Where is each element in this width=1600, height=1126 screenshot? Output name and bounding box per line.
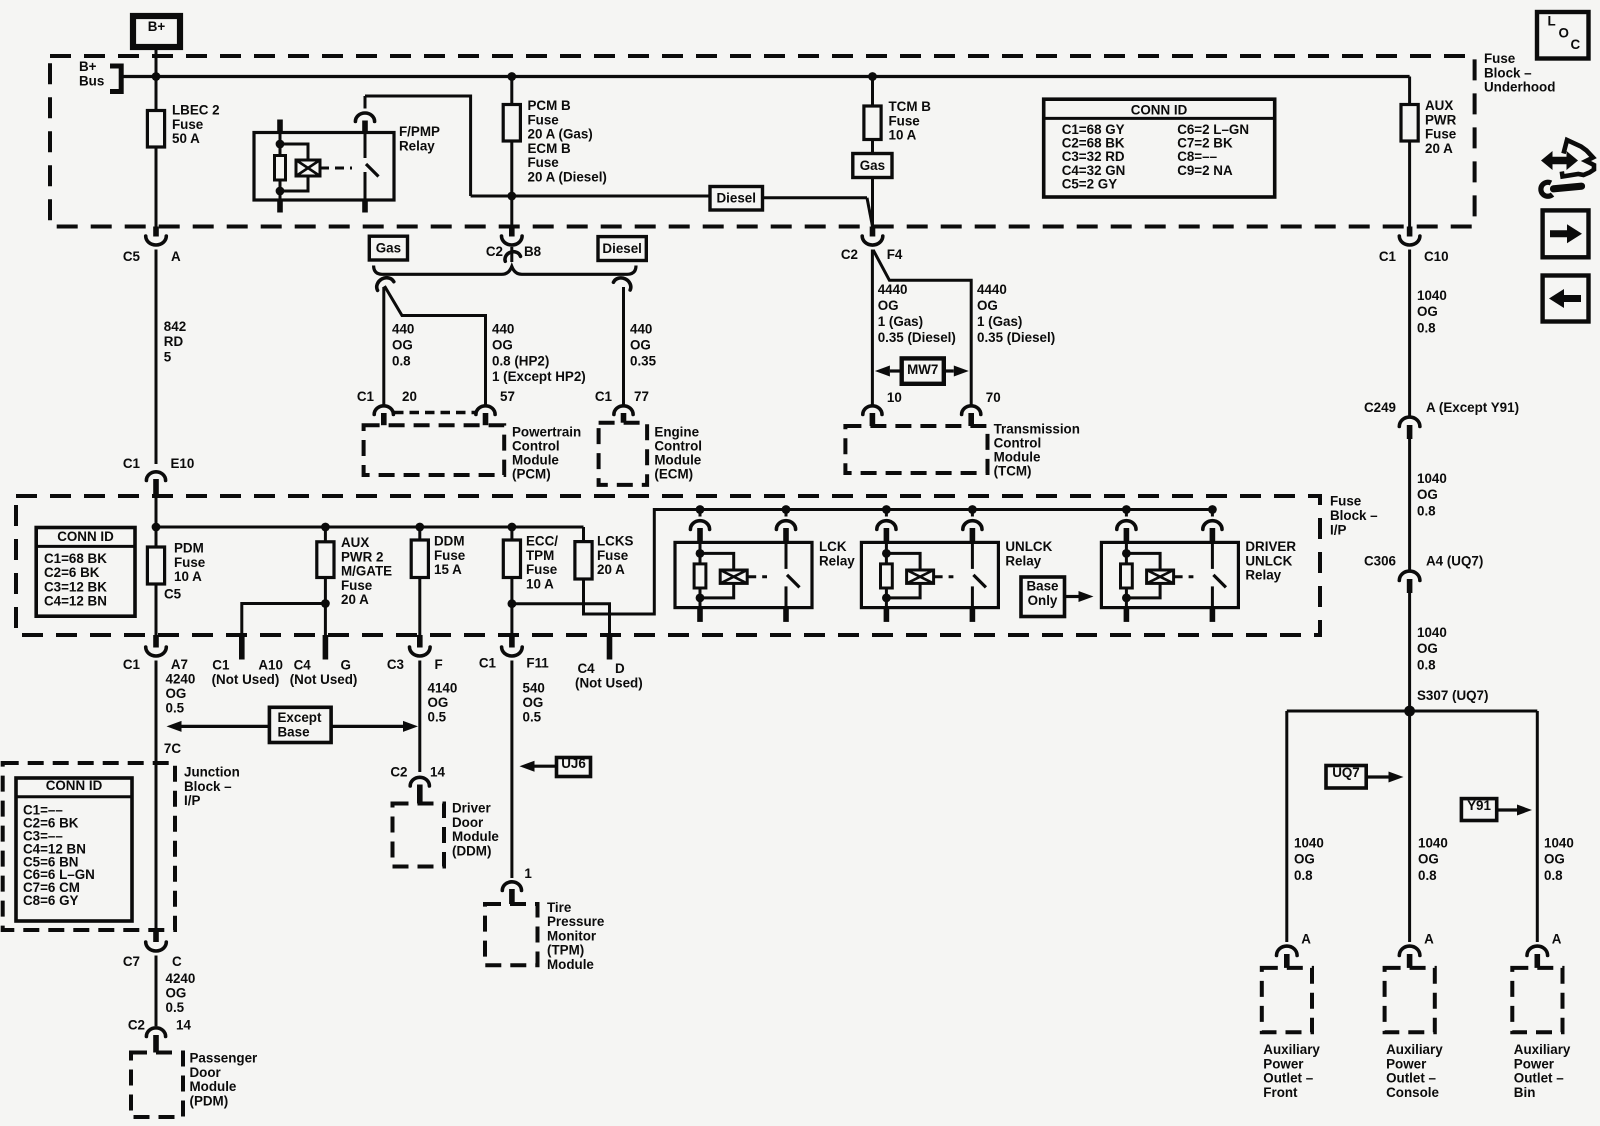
wire 4240 OG to junction block	[155, 661, 158, 764]
svg-text:77: 77	[634, 389, 649, 404]
connector C1 pin F11	[509, 635, 515, 648]
svg-text:OG: OG	[392, 337, 413, 352]
svg-text:Control: Control	[512, 439, 560, 454]
svg-text:C1: C1	[212, 658, 230, 673]
svg-text:1: 1	[524, 866, 532, 881]
junction on bus at TCM B fuse	[868, 72, 877, 81]
svg-text:10: 10	[887, 390, 902, 405]
svg-text:Module: Module	[512, 453, 559, 468]
svg-text:Junction: Junction	[184, 765, 240, 780]
svg-text:Engine: Engine	[654, 425, 699, 440]
svg-text:0.8: 0.8	[1417, 503, 1436, 518]
svg-text:Fuse: Fuse	[1425, 127, 1456, 142]
relay LCK switch pin	[785, 510, 788, 517]
svg-text:A10: A10	[258, 658, 283, 673]
svg-text:Gas: Gas	[860, 158, 885, 173]
relay UNLCK switch contact	[971, 542, 974, 569]
svg-text:DDM: DDM	[434, 534, 465, 549]
svg-text:Module: Module	[654, 453, 701, 468]
icon arrow next box	[1543, 210, 1589, 257]
CONN ID table - junction block	[16, 778, 132, 921]
svg-text:LBEC 2: LBEC 2	[172, 103, 220, 118]
relay LCK switch contact	[785, 542, 788, 569]
svg-text:(Not Used): (Not Used)	[212, 672, 280, 687]
svg-text:Auxiliary: Auxiliary	[1386, 1042, 1443, 1057]
wire to aux outlet bin	[1536, 711, 1539, 942]
relay LCK coil circuit	[699, 542, 702, 553]
junction below ECC/TPM fuse	[508, 599, 517, 608]
svg-text:C1: C1	[357, 389, 375, 404]
svg-text:A: A	[1424, 931, 1434, 946]
svg-text:OG: OG	[166, 686, 187, 701]
svg-text:O: O	[1559, 26, 1569, 41]
svg-text:57: 57	[500, 389, 515, 404]
svg-text:Module: Module	[994, 450, 1041, 465]
relay UNLCK coil circuit	[885, 542, 888, 553]
wire 440 OG 0.8 to PCM pin 20	[382, 287, 385, 405]
relay DRIVER coil circuit	[1125, 542, 1128, 553]
svg-text:C2: C2	[841, 247, 858, 262]
wire to not-used pin A10	[242, 604, 326, 636]
svg-text:C1=68 BK: C1=68 BK	[44, 551, 107, 566]
relay DRIVER switch pin	[1211, 510, 1214, 517]
relay DRIVER DRIVER UNLCK coil pin	[1125, 510, 1128, 517]
svg-text:I/P: I/P	[1330, 522, 1346, 537]
svg-text:Transmission: Transmission	[994, 422, 1080, 437]
svg-text:MW7: MW7	[907, 362, 938, 377]
svg-text:70: 70	[986, 390, 1001, 405]
svg-text:L: L	[1548, 14, 1556, 29]
svg-text:Block –: Block –	[184, 779, 232, 794]
svg-text:Bin: Bin	[1514, 1085, 1536, 1100]
svg-text:OG: OG	[428, 695, 449, 710]
svg-text:0.5: 0.5	[523, 710, 542, 725]
svg-text:C5=2 GY: C5=2 GY	[1062, 176, 1118, 191]
svg-text:20 A: 20 A	[597, 562, 625, 577]
wire to not-used pin D	[512, 604, 610, 635]
svg-text:0.8: 0.8	[1417, 657, 1436, 672]
svg-text:4240: 4240	[166, 971, 196, 986]
wire 540 OG to TPM	[510, 661, 513, 879]
wire B+ box to bus	[155, 47, 158, 77]
svg-text:C2: C2	[128, 1018, 145, 1033]
junction at AUX PWR 2 fuse	[321, 523, 330, 532]
svg-text:I/P: I/P	[184, 793, 200, 808]
svg-text:Diesel: Diesel	[602, 241, 641, 256]
svg-text:Fuse: Fuse	[172, 117, 203, 132]
wire diesel feed right segment to TCM drop	[763, 196, 868, 199]
fuse block - I/P dashed border	[16, 496, 1320, 635]
icon LOC box	[1537, 12, 1589, 59]
svg-text:C1: C1	[595, 389, 613, 404]
svg-text:Door: Door	[190, 1065, 222, 1080]
svg-text:Fuse: Fuse	[526, 562, 557, 577]
tag UQ7 with arrow	[1326, 766, 1366, 789]
svg-text:C2: C2	[390, 765, 407, 780]
tag Gas below TCM B fuse	[853, 154, 892, 178]
svg-text:Y91: Y91	[1467, 798, 1491, 813]
svg-text:M/GATE: M/GATE	[341, 564, 392, 579]
svg-text:14: 14	[430, 765, 445, 780]
wire B+ bus horizontal	[121, 75, 1409, 78]
CONN ID table - fuse block I/P	[36, 528, 135, 617]
svg-text:C: C	[1571, 37, 1581, 52]
svg-text:Gas: Gas	[376, 241, 401, 256]
junction on bus at LBEC2	[152, 72, 161, 81]
svg-text:A (Except Y91): A (Except Y91)	[1426, 400, 1519, 415]
relay DRIVER switch contact	[1211, 542, 1214, 569]
svg-text:ECC/: ECC/	[526, 534, 558, 549]
wire through junction block	[155, 763, 158, 930]
svg-text:Console: Console	[1386, 1085, 1439, 1100]
svg-text:Control: Control	[994, 436, 1042, 451]
module Auxiliary Power Outlet Front box	[1262, 968, 1312, 1032]
svg-text:440: 440	[492, 322, 514, 337]
svg-text:(PDM): (PDM)	[190, 1093, 229, 1108]
svg-text:F/PMP: F/PMP	[399, 124, 440, 139]
wire 1040 OG segment 1	[1408, 250, 1411, 418]
svg-text:Fuse: Fuse	[528, 155, 559, 170]
svg-text:Fuse: Fuse	[1330, 494, 1361, 509]
svg-text:OG: OG	[166, 986, 187, 1001]
svg-text:ECM B: ECM B	[528, 141, 571, 156]
svg-text:Fuse: Fuse	[597, 548, 628, 563]
svg-text:OG: OG	[977, 298, 998, 313]
svg-text:15 A: 15 A	[434, 562, 462, 577]
module ECM box	[599, 423, 648, 485]
svg-text:(TCM): (TCM)	[994, 464, 1032, 479]
module PDM box	[131, 1053, 183, 1118]
relay UNLCK switch pin	[971, 510, 974, 517]
svg-text:Relay: Relay	[1005, 553, 1041, 568]
wire 440 OG to PCM pin 57	[385, 286, 486, 405]
tag Diesel for ECM branch	[598, 237, 646, 261]
module PCM box	[364, 425, 505, 475]
module Auxiliary Power Outlet Console box	[1385, 968, 1435, 1032]
connector C1 pin C10	[1407, 227, 1413, 237]
wire 1040 OG segment 2	[1408, 439, 1411, 571]
relay UNLCK UNLCK coil pin	[885, 510, 888, 517]
svg-text:1040: 1040	[1418, 836, 1448, 851]
svg-text:440: 440	[392, 322, 414, 337]
brace split gas/diesel	[374, 266, 636, 275]
svg-text:Relay: Relay	[399, 138, 435, 153]
svg-text:Base: Base	[278, 724, 310, 739]
svg-text:Power: Power	[1386, 1056, 1427, 1071]
svg-text:Bus: Bus	[79, 73, 104, 88]
svg-text:842: 842	[164, 319, 186, 334]
connector C1 pin A7	[153, 635, 159, 648]
svg-text:0.8: 0.8	[1294, 868, 1313, 883]
svg-text:E10: E10	[171, 456, 195, 471]
relay DRIVER box	[1101, 542, 1238, 607]
svg-text:Only: Only	[1028, 593, 1058, 608]
svg-text:Diesel: Diesel	[717, 191, 756, 206]
wire 1040 OG segment 3	[1408, 593, 1411, 711]
svg-text:4140: 4140	[428, 681, 458, 696]
fuse LBEC 2 50 A	[155, 77, 158, 111]
svg-text:C7: C7	[123, 954, 140, 969]
module Auxiliary Power Outlet Bin box	[1512, 968, 1562, 1032]
svg-text:C10: C10	[1424, 249, 1449, 264]
svg-text:Front: Front	[1263, 1085, 1298, 1100]
svg-text:(TPM): (TPM)	[547, 943, 584, 958]
svg-text:LCKS: LCKS	[597, 534, 634, 549]
connector C2 pin F4	[870, 227, 876, 237]
svg-text:C: C	[172, 954, 182, 969]
icon vehicle service	[1541, 140, 1594, 196]
wire TCM drop below Gas tag	[871, 178, 874, 227]
svg-text:0.8: 0.8	[1544, 868, 1563, 883]
svg-text:B8: B8	[524, 244, 542, 259]
svg-text:C306: C306	[1364, 554, 1396, 569]
svg-text:A: A	[1301, 931, 1311, 946]
svg-text:Fuse: Fuse	[528, 112, 559, 127]
wire F/PMP relay switch to diesel feed	[365, 96, 471, 196]
svg-text:UQ7: UQ7	[1332, 765, 1360, 780]
svg-text:Fuse: Fuse	[341, 578, 372, 593]
connector C3 pin F	[417, 635, 423, 648]
icon arrow back box	[1543, 276, 1589, 322]
svg-text:Base: Base	[1026, 579, 1058, 594]
relay LCK LCK coil pin	[699, 510, 702, 517]
wire I/P feed vertical	[155, 496, 158, 547]
junction below AUX PWR 2 fuse	[321, 599, 330, 608]
svg-text:TPM: TPM	[526, 548, 554, 563]
svg-text:20 A (Gas): 20 A (Gas)	[528, 127, 593, 142]
svg-text:C2: C2	[486, 244, 503, 259]
svg-text:OG: OG	[523, 695, 544, 710]
tag Y91 with arrow	[1461, 799, 1496, 821]
fuse PCM B / ECM B 20 A	[510, 77, 513, 105]
relay UNLCK lower stubs	[884, 608, 890, 622]
svg-text:Block –: Block –	[1484, 65, 1532, 80]
connector C7 pin C	[153, 930, 159, 942]
svg-text:1 (Gas): 1 (Gas)	[878, 314, 923, 329]
svg-text:Driver: Driver	[452, 801, 491, 816]
svg-text:0.8: 0.8	[392, 353, 411, 368]
svg-text:D: D	[615, 661, 625, 676]
svg-text:0.8: 0.8	[1418, 868, 1437, 883]
svg-text:AUX: AUX	[1425, 98, 1453, 113]
svg-text:AUX: AUX	[341, 535, 369, 550]
svg-text:10 A: 10 A	[526, 576, 554, 591]
svg-text:C1: C1	[123, 657, 141, 672]
svg-text:1040: 1040	[1294, 836, 1324, 851]
svg-text:Fuse: Fuse	[1484, 51, 1515, 66]
svg-text:0.35 (Diesel): 0.35 (Diesel)	[977, 330, 1055, 345]
fuse AUX PWR 2 M/GATE 20 A	[324, 527, 327, 542]
svg-text:20: 20	[402, 389, 417, 404]
svg-text:G: G	[341, 658, 351, 673]
wire 4440 OG to TCM pin 10	[871, 250, 874, 406]
relay LCK actuator dashed link	[747, 575, 767, 578]
junction at ECC/TPM fuse	[508, 523, 517, 532]
svg-text:Module: Module	[452, 829, 499, 844]
junction at DDM fuse	[415, 523, 424, 532]
svg-text:Power: Power	[1514, 1056, 1555, 1071]
svg-text:OG: OG	[1417, 304, 1438, 319]
svg-text:5: 5	[164, 349, 172, 364]
svg-text:(DDM): (DDM)	[452, 843, 491, 858]
svg-text:0.5: 0.5	[166, 1000, 185, 1015]
svg-text:Tire: Tire	[547, 900, 571, 915]
svg-text:4440: 4440	[878, 282, 908, 297]
svg-text:C4: C4	[294, 658, 312, 673]
svg-text:20 A: 20 A	[341, 592, 369, 607]
svg-text:C4=12 BN: C4=12 BN	[44, 594, 107, 609]
svg-text:Pressure: Pressure	[547, 914, 604, 929]
svg-text:F: F	[435, 657, 443, 672]
tag MW7 with arrows	[890, 369, 902, 372]
svg-text:F11: F11	[526, 656, 549, 671]
svg-text:0.35 (Diesel): 0.35 (Diesel)	[878, 330, 956, 345]
svg-text:Underhood: Underhood	[1484, 80, 1555, 95]
svg-text:C2=6 BK: C2=6 BK	[44, 565, 100, 580]
svg-text:(ECM): (ECM)	[654, 467, 693, 482]
svg-text:Door: Door	[452, 815, 484, 830]
svg-text:Auxiliary: Auxiliary	[1514, 1042, 1571, 1057]
svg-text:A7: A7	[171, 657, 188, 672]
tag Except Base with arrows	[182, 725, 270, 728]
svg-text:1 (Except HP2): 1 (Except HP2)	[492, 369, 586, 384]
fuse LCKS 20 A	[582, 527, 585, 542]
svg-text:4240: 4240	[166, 672, 196, 687]
svg-text:1 (Gas): 1 (Gas)	[977, 314, 1022, 329]
svg-text:(Not Used): (Not Used)	[575, 675, 643, 690]
wire splice S307 horizontal	[1287, 710, 1538, 713]
svg-text:(Not Used): (Not Used)	[290, 672, 358, 687]
wire 440 OG 0.35 to ECM pin 77	[622, 287, 625, 405]
svg-text:OG: OG	[492, 337, 513, 352]
svg-text:50 A: 50 A	[172, 131, 200, 146]
wire LCKS fuse to relay bus	[584, 510, 1212, 615]
relay UNLCK actuator dashed link	[934, 575, 954, 578]
svg-text:0.8 (HP2): 0.8 (HP2)	[492, 353, 549, 368]
fuse PDM 10 A	[147, 547, 164, 584]
svg-text:OG: OG	[878, 298, 899, 313]
svg-text:C249: C249	[1364, 400, 1396, 415]
svg-text:A: A	[171, 249, 181, 264]
svg-text:Passenger: Passenger	[190, 1051, 259, 1066]
svg-text:F4: F4	[887, 247, 903, 262]
svg-text:1040: 1040	[1417, 625, 1447, 640]
junction block - I/P dashed border	[3, 763, 175, 930]
wire 4440 OG to TCM pin 70	[873, 250, 971, 405]
fuse block - underhood dashed border	[50, 56, 1475, 227]
svg-text:0.5: 0.5	[428, 710, 447, 725]
svg-text:Module: Module	[190, 1079, 237, 1094]
fuse TCM B 10 A	[871, 77, 874, 107]
svg-text:UNLCK: UNLCK	[1005, 539, 1052, 554]
svg-text:C4: C4	[578, 661, 596, 676]
svg-text:Auxiliary: Auxiliary	[1263, 1042, 1320, 1057]
fuse DDM 15 A	[418, 527, 421, 540]
svg-text:PCM B: PCM B	[528, 98, 571, 113]
svg-text:C5: C5	[123, 249, 141, 264]
wire to aux outlet console	[1408, 711, 1411, 942]
svg-text:DRIVER: DRIVER	[1245, 539, 1296, 554]
relay UNLCK box	[861, 542, 998, 607]
svg-text:540: 540	[523, 681, 545, 696]
svg-text:B+: B+	[148, 19, 166, 34]
wire to aux outlet front	[1285, 711, 1288, 942]
svg-text:C3: C3	[387, 657, 404, 672]
svg-text:14: 14	[176, 1018, 191, 1033]
relay LCK lower stubs	[697, 608, 703, 622]
svg-text:Except: Except	[278, 710, 322, 725]
svg-text:Fuse: Fuse	[434, 548, 465, 563]
svg-text:Outlet –: Outlet –	[1263, 1071, 1313, 1086]
wire diesel feed left segment	[471, 195, 710, 198]
svg-text:Relay: Relay	[1245, 568, 1281, 583]
dashed link between PCM pins	[394, 411, 476, 414]
svg-text:Outlet –: Outlet –	[1514, 1071, 1564, 1086]
svg-text:A4 (UQ7): A4 (UQ7)	[1426, 554, 1483, 569]
svg-text:PDM: PDM	[174, 541, 204, 556]
svg-text:Fuse: Fuse	[174, 555, 205, 570]
svg-text:OG: OG	[1294, 852, 1315, 867]
module DDM box	[393, 804, 445, 867]
junction diesel feed at PCM fuse wire	[507, 192, 516, 201]
svg-text:RD: RD	[164, 334, 184, 349]
svg-text:B+: B+	[79, 59, 97, 74]
svg-text:0.35: 0.35	[630, 353, 657, 368]
svg-text:CONN ID: CONN ID	[1131, 103, 1188, 118]
svg-text:C1: C1	[479, 656, 497, 671]
CONN ID table - underhood	[1044, 99, 1275, 197]
svg-text:1040: 1040	[1544, 836, 1574, 851]
svg-text:20 A (Diesel): 20 A (Diesel)	[528, 170, 607, 185]
svg-text:7C: 7C	[164, 741, 181, 756]
svg-text:OG: OG	[1544, 852, 1565, 867]
relay F/PMP	[254, 133, 394, 201]
tag Base Only with arrow	[1021, 577, 1065, 617]
svg-text:Relay: Relay	[819, 553, 855, 568]
stub not-used pin G	[323, 635, 329, 660]
svg-text:C1: C1	[123, 456, 141, 471]
svg-text:C5: C5	[164, 587, 182, 602]
junction on bus at PCM B fuse	[507, 72, 516, 81]
svg-text:Power: Power	[1263, 1056, 1304, 1071]
wire 4140 OG to DDM	[418, 661, 421, 773]
connector C5 pin A	[153, 227, 159, 237]
svg-text:OG: OG	[1418, 852, 1439, 867]
svg-text:UNLCK: UNLCK	[1245, 553, 1292, 568]
svg-text:S307 (UQ7): S307 (UQ7)	[1417, 688, 1488, 703]
svg-text:Powertrain: Powertrain	[512, 425, 581, 440]
svg-text:Outlet –: Outlet –	[1386, 1071, 1436, 1086]
svg-text:CONN ID: CONN ID	[57, 529, 114, 544]
svg-text:10 A: 10 A	[174, 569, 202, 584]
svg-text:1040: 1040	[1417, 288, 1447, 303]
svg-text:C9=2 NA: C9=2 NA	[1177, 163, 1233, 178]
svg-text:C3=12 BK: C3=12 BK	[44, 579, 107, 594]
svg-text:PWR: PWR	[1425, 112, 1457, 127]
fuse AUX PWR 20 A	[1408, 77, 1411, 105]
svg-text:Monitor: Monitor	[547, 928, 597, 943]
fuse ECC/TPM 10 A	[510, 527, 513, 540]
relay DRIVER actuator dashed link	[1174, 575, 1194, 578]
wire 4240 OG to PDM	[155, 956, 158, 1027]
connector hook gas branch	[374, 275, 394, 291]
svg-text:0.8: 0.8	[1417, 320, 1436, 335]
relay DRIVER lower stubs	[1124, 608, 1130, 622]
svg-text:Module: Module	[547, 957, 594, 972]
svg-text:Fuse: Fuse	[889, 113, 920, 128]
svg-text:(PCM): (PCM)	[512, 467, 551, 482]
svg-text:20 A: 20 A	[1425, 141, 1453, 156]
